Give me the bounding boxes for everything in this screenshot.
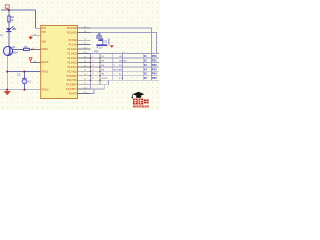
svg-text:P22: P22: [152, 63, 157, 67]
svg-text:C4: C4: [98, 32, 102, 36]
svg-text:1N4148: 1N4148: [119, 60, 127, 62]
svg-text:P0.1/AD1: P0.1/AD1: [67, 31, 78, 34]
svg-text:R2: R2: [24, 45, 28, 49]
svg-text:P2.6/A14: P2.6/A14: [67, 66, 77, 69]
svg-text:C5: C5: [104, 39, 108, 43]
svg-text:P20: P20: [152, 54, 157, 58]
svg-text:D1: D1: [13, 27, 17, 31]
svg-text:P2.3/A11: P2.3/A11: [68, 53, 78, 56]
svg-text:Y1: Y1: [28, 80, 32, 84]
svg-text:P2.5/A13: P2.5/A13: [67, 61, 77, 64]
svg-text:P2.4/A12: P2.4/A12: [67, 57, 77, 60]
svg-text:PSEN: PSEN: [42, 49, 49, 51]
svg-text:P0.0/AD0: P0.0/AD0: [67, 27, 78, 30]
svg-text:XTAL1: XTAL1: [42, 70, 50, 73]
svg-text:BUZZER: BUZZER: [113, 69, 122, 71]
svg-text:P36: P36: [42, 32, 47, 34]
svg-text:26: 26: [144, 76, 147, 80]
svg-text:4,5/T1: 4,5/T1: [101, 78, 108, 80]
svg-text:P23: P23: [152, 67, 157, 71]
svg-text:C): C): [0, 33, 3, 37]
svg-text:P25: P25: [152, 76, 157, 80]
svg-text:XTAL2: XTAL2: [42, 88, 50, 91]
svg-text:C2: C2: [17, 73, 21, 77]
svg-text:EA/VP: EA/VP: [42, 61, 49, 64]
svg-text:P24: P24: [152, 72, 157, 76]
svg-text:P2.2/A10: P2.2/A10: [67, 48, 77, 51]
svg-text:ALE: ALE: [42, 41, 47, 44]
svg-text:P3.3/INT1: P3.3/INT1: [66, 89, 77, 91]
svg-text:24: 24: [144, 67, 147, 71]
svg-text:P3.2/INT0: P3.2/INT0: [66, 85, 77, 87]
svg-text:25: 25: [144, 72, 147, 76]
svg-text:9014: 9014: [12, 51, 18, 55]
svg-text:Q1: Q1: [12, 45, 16, 49]
svg-text:RST: RST: [42, 28, 47, 30]
svg-text:P3.0/RXD: P3.0/RXD: [67, 76, 78, 78]
svg-text:4.7K: 4.7K: [119, 78, 124, 80]
svg-text:P2.0/A8: P2.0/A8: [69, 39, 78, 42]
svg-text:P2.7/A15: P2.7/A15: [67, 70, 77, 73]
svg-text:P1.0: P1.0: [97, 46, 103, 50]
svg-text:P3.4/T0: P3.4/T0: [69, 94, 78, 96]
svg-text:P2.1/A9: P2.1/A9: [69, 44, 78, 47]
svg-text:P07: P07: [94, 50, 99, 54]
svg-text:23: 23: [144, 63, 147, 67]
svg-text:21: 21: [144, 54, 147, 58]
svg-text:P21: P21: [152, 58, 157, 62]
svg-text:22: 22: [144, 58, 147, 62]
svg-text:P3.1/TXD: P3.1/TXD: [67, 80, 77, 82]
